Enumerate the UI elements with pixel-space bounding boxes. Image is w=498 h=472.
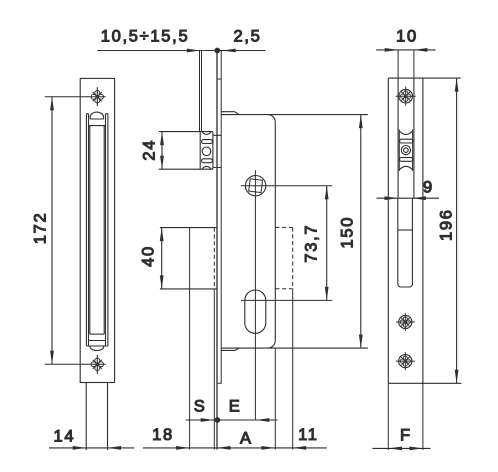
right plate outline: [388, 78, 461, 383]
arrow to strip back: [222, 49, 236, 53]
bolt thrown block (40): [160, 228, 217, 450]
slot inner channel: [90, 126, 104, 335]
rails top ticks: [86, 113, 108, 115]
lower slot: [398, 198, 413, 287]
roller dome bottom: [90, 346, 104, 350]
svg-text:40: 40: [140, 245, 158, 267]
dimension 73,7: [325, 186, 329, 301]
lock case outline: [221, 112, 368, 450]
bolt face: [189, 228, 191, 450]
svg-text:24: 24: [140, 139, 158, 161]
top dimension line: [97, 50, 265, 52]
cylinder oval: [245, 290, 266, 333]
svg-text:10: 10: [396, 27, 418, 45]
screw 1 (cross-recess pan head): [396, 87, 416, 106]
saddle top: [202, 132, 211, 134]
top right corner: [268, 115, 276, 123]
spring stadium 1: [202, 140, 213, 144]
screw bottom (pozidriv cross): [91, 355, 103, 374]
dimension 172: [45, 97, 106, 365]
reference dot: [214, 48, 220, 54]
svg-text:E: E: [229, 398, 240, 416]
svg-text:11: 11: [298, 426, 319, 444]
roller dome top: [90, 112, 104, 119]
bottom dimension line 18/A/11: [143, 446, 327, 450]
svg-text:150: 150: [339, 216, 357, 249]
oval reference line: [241, 299, 332, 301]
svg-text:73,7: 73,7: [303, 224, 321, 263]
case extension below plate (for 14 dim): [86, 383, 107, 451]
faceplate strip back line ending at plate bottom jog: [218, 51, 222, 384]
top edge + ext to 150 dim: [221, 114, 368, 116]
dimension 9: [377, 196, 440, 200]
11 extension line: [292, 289, 294, 450]
svg-text:10,5÷15,5: 10,5÷15,5: [101, 27, 190, 45]
dimension 150: [359, 115, 363, 349]
screw top (pozidriv cross): [91, 87, 103, 106]
dimension 196: [455, 78, 459, 383]
spindle hub: [241, 170, 332, 420]
bottom rail end: [86, 345, 108, 347]
bottom corner: [268, 341, 276, 349]
svg-text:S: S: [194, 398, 205, 416]
faceplate plate outline: [80, 78, 114, 382]
screw 2: [396, 313, 415, 331]
saddle bottom: [202, 166, 211, 168]
svg-text:F: F: [400, 427, 410, 445]
screw 3: [396, 352, 415, 370]
right edge extension down: [274, 348, 276, 449]
dimension 40: [160, 228, 164, 289]
dimension 14: [49, 446, 134, 450]
nose through plate: [213, 135, 221, 167]
arrow to adjuster lines: [187, 49, 201, 53]
svg-text:172: 172: [31, 212, 49, 245]
strip top tick: [217, 78, 221, 80]
bolt dashed box inside case: [275, 227, 292, 288]
dimension 10: [376, 48, 435, 52]
faceplate strip front line: [216, 51, 218, 450]
latch slot rails: [86, 114, 108, 346]
top tab: [221, 112, 239, 115]
svg-text:A: A: [240, 430, 251, 448]
slot top shelf: [89, 125, 106, 127]
latch cassette (side view): [159, 132, 221, 170]
lower shelf 2: [89, 340, 106, 342]
F extension lines: [388, 383, 423, 450]
adjuster pair lines: [200, 51, 202, 132]
svg-text:196: 196: [438, 208, 456, 241]
svg-text:14: 14: [53, 427, 75, 445]
dimension 24: [160, 132, 164, 170]
dimension F: [372, 447, 430, 451]
spring stadium 2: [202, 159, 213, 163]
svg-text:9: 9: [423, 179, 434, 197]
svg-text:2,5: 2,5: [234, 27, 262, 45]
forend front line: dashed behind bolt then solid: [213, 228, 215, 289]
svg-text:18: 18: [152, 426, 174, 444]
right edge: [274, 122, 276, 340]
roller circle: [202, 147, 211, 156]
bottom tab: [221, 348, 239, 350]
bottom edge + ext to 150 dim: [221, 347, 368, 349]
channel extension lines: [398, 50, 414, 78]
channel rails: [398, 78, 414, 198]
roller cassette (front): [399, 130, 413, 172]
S/E dimension line: [186, 417, 278, 423]
slot bottom shelf: [90, 333, 104, 335]
